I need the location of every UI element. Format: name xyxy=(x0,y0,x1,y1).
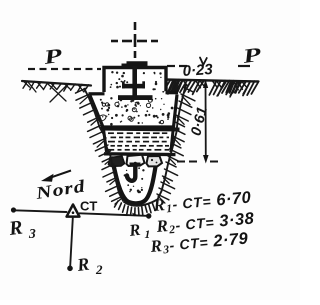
ground line left xyxy=(22,81,91,86)
text R2-CT=3.38 xyxy=(155,208,256,237)
concrete trapezoid xyxy=(90,95,177,128)
text R3-CT=2.79 xyxy=(149,228,250,257)
grass hatch left xyxy=(23,81,28,88)
text R1-CT=6.70 xyxy=(152,187,253,216)
svg-text:CT: CT xyxy=(80,199,97,214)
stone right xyxy=(147,156,163,166)
monument cap bolt xyxy=(122,61,148,67)
svg-text:2: 2 xyxy=(95,262,103,277)
svg-text:3: 3 xyxy=(28,226,36,241)
stipple: cup xyxy=(129,191,131,193)
svg-text:- CT=: - CT= xyxy=(175,214,215,233)
svg-text:0·23: 0·23 xyxy=(182,61,214,80)
grass hatch right xyxy=(163,80,170,92)
svg-text:R: R xyxy=(75,254,90,275)
svg-text:R: R xyxy=(152,195,166,215)
ground line right xyxy=(164,80,258,82)
P dashed line left xyxy=(28,68,101,70)
centerline cross xyxy=(111,22,158,58)
svg-text:P: P xyxy=(42,45,65,69)
sand layer walls xyxy=(104,129,107,152)
stone left xyxy=(109,156,125,166)
ray to R3 xyxy=(14,210,67,212)
pit hatch left xyxy=(76,88,87,93)
north arrow xyxy=(47,171,71,179)
pit wall left xyxy=(84,88,124,202)
stone middle xyxy=(127,155,145,166)
right shoulder ledge xyxy=(166,91,179,95)
svg-text:0·61: 0·61 xyxy=(188,105,211,137)
pit wall right xyxy=(158,84,187,200)
svg-text:R: R xyxy=(127,220,141,240)
svg-text:P: P xyxy=(241,44,264,68)
stipple: head block xyxy=(121,81,123,83)
buried marker J xyxy=(130,163,141,167)
pit bottom xyxy=(124,200,158,206)
svg-text:6·70: 6·70 xyxy=(216,188,253,209)
monument head block xyxy=(104,68,166,93)
svg-text:2·79: 2·79 xyxy=(212,229,250,250)
lower cup block xyxy=(113,162,157,204)
svg-text:R: R xyxy=(149,236,163,256)
station triangle CT xyxy=(67,205,80,217)
left shoulder ledge xyxy=(89,92,105,96)
pit hatch right xyxy=(183,87,193,92)
ray to R2 xyxy=(70,218,73,266)
dim line 0.61 xyxy=(205,82,207,160)
pit hatch bottom fringe xyxy=(115,201,119,207)
ray to R1 xyxy=(80,213,147,216)
svg-text:R: R xyxy=(155,216,169,236)
svg-text:R: R xyxy=(7,217,24,241)
P dashed line right xyxy=(167,65,250,67)
dim arrow 0.23 xyxy=(200,58,207,65)
dashed line stones level xyxy=(177,161,218,163)
svg-text:- CT=: - CT= xyxy=(169,234,209,253)
sand layer dashes xyxy=(108,132,114,134)
svg-text:3·38: 3·38 xyxy=(219,209,256,230)
stipple: concrete trapezoid xyxy=(155,115,157,117)
svg-text:- CT=: - CT= xyxy=(172,193,212,212)
trapezoid bottom band xyxy=(101,129,180,130)
anchor cross in head xyxy=(118,66,153,100)
sand bottom band xyxy=(104,152,176,156)
